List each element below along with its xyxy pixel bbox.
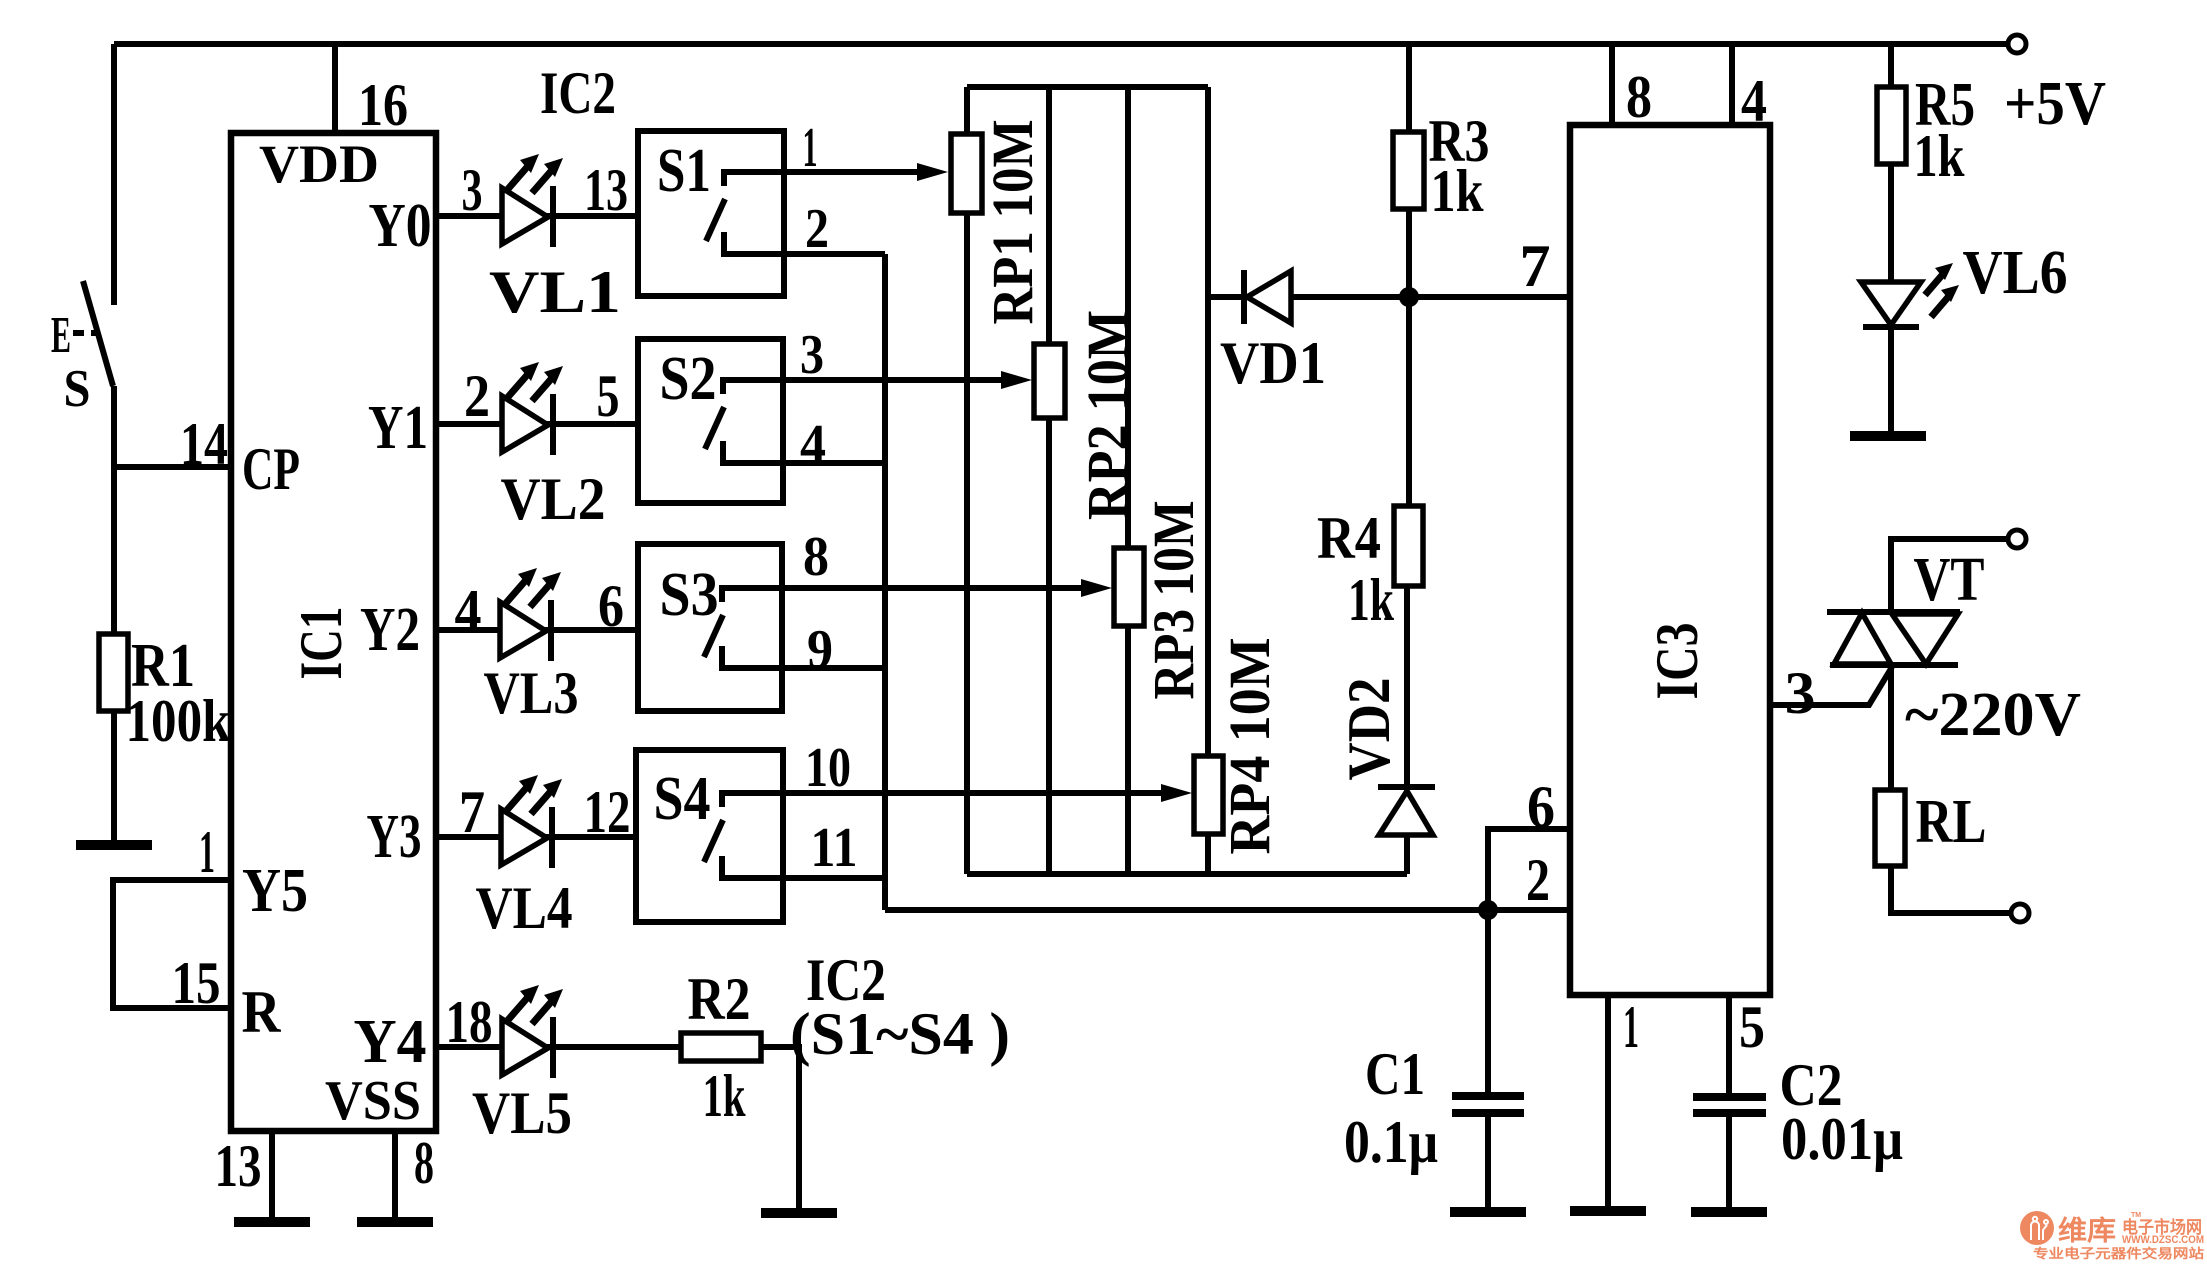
ground R2 <box>761 1212 837 1214</box>
svg-text:VL1: VL1 <box>489 259 621 325</box>
svg-text:10: 10 <box>805 737 851 799</box>
switch box S4 <box>636 750 783 922</box>
ground pin 8 <box>357 1221 433 1223</box>
triac VT <box>1827 609 1960 615</box>
wire S2 pin4 <box>783 460 885 466</box>
svg-text:4: 4 <box>1741 68 1767 134</box>
IC3 box <box>1570 125 1770 995</box>
wire S3 pin8 to RP3 wiper <box>782 585 1084 591</box>
ground VL6 <box>1850 435 1926 437</box>
svg-text:R4: R4 <box>1317 505 1381 571</box>
svg-text:RP1 10M: RP1 10M <box>980 120 1045 325</box>
switch S1 blade <box>706 199 725 241</box>
switch S2 moving contact <box>723 441 783 463</box>
wire Y3 <box>436 834 636 840</box>
svg-text:S4: S4 <box>654 765 711 833</box>
svg-text:E: E <box>51 307 71 364</box>
svg-text:Y5: Y5 <box>242 857 308 925</box>
svg-text:S1: S1 <box>657 137 711 205</box>
switch S3 fixed contact <box>722 588 782 602</box>
switch S3 moving contact <box>722 646 782 668</box>
RP2 wiper arrowhead <box>1001 371 1032 389</box>
wire RP1 top stub <box>964 87 970 136</box>
wire RP2 bottom <box>1046 418 1052 874</box>
switch S1 fixed contact <box>724 172 784 186</box>
wire RP4 bottom <box>1205 834 1211 874</box>
wire: Y5-R loop <box>113 880 231 1008</box>
wire: IC1 pin 8 stub <box>392 1131 398 1220</box>
svg-text:R: R <box>242 979 282 1045</box>
wire R3 bottom <box>1406 209 1412 297</box>
svg-text:5: 5 <box>1739 994 1765 1060</box>
svg-text:Y1: Y1 <box>368 394 428 462</box>
svg-text:VD1: VD1 <box>1220 330 1326 396</box>
terminal +5V <box>2008 35 2026 53</box>
LED VL6 pointing down <box>1861 282 1921 325</box>
wire S2 pin3 to RP2 wiper <box>783 377 1004 383</box>
ground below R1 <box>76 844 152 846</box>
resistor R1 <box>99 634 128 711</box>
svg-text:VL6: VL6 <box>1963 239 2068 307</box>
switch S actuator dashes <box>73 330 98 336</box>
wire R3 top <box>1406 44 1412 134</box>
svg-text:1k: 1k <box>703 1063 746 1129</box>
svg-text:18: 18 <box>446 989 493 1055</box>
svg-text:0.1μ: 0.1μ <box>1344 1109 1438 1175</box>
ground pin 13 <box>234 1221 310 1223</box>
wire R5 top <box>1888 44 1894 89</box>
svg-text:6: 6 <box>598 573 624 639</box>
wire to IC3 pin 7 <box>1409 294 1570 300</box>
svg-text:VD2: VD2 <box>1336 678 1402 781</box>
svg-text:S: S <box>64 360 91 418</box>
svg-text:15: 15 <box>172 950 221 1016</box>
LED VL5 <box>502 985 563 1078</box>
LED VL3 <box>500 568 561 661</box>
svg-text:2: 2 <box>1526 847 1550 913</box>
wire S4 pin10 to RP4 wiper <box>783 790 1164 796</box>
wire IC3 pin 3 to gate <box>1770 667 1892 705</box>
switch S blade <box>83 281 113 386</box>
svg-text:7: 7 <box>459 779 485 845</box>
diode VD1 <box>1241 270 1247 324</box>
svg-text:VL5: VL5 <box>472 1080 572 1146</box>
node junction pin2/pin6/C1 <box>1478 900 1498 920</box>
diode VD2 <box>1378 784 1435 790</box>
svg-text:~220V: ~220V <box>1905 681 2081 749</box>
svg-text:RP2 10M: RP2 10M <box>1075 310 1140 520</box>
switch S4 moving contact <box>722 856 783 878</box>
wire: run to IC3 pin 2 <box>885 907 1570 913</box>
wire IC3 pin 5 stub <box>1726 995 1732 1097</box>
svg-text:8: 8 <box>414 1130 434 1196</box>
svg-text:7: 7 <box>1520 233 1551 299</box>
capacitor C2 <box>1693 1093 1766 1101</box>
wire S1 pin2 <box>784 251 885 257</box>
wire R5 to VL6 <box>1888 164 1894 284</box>
svg-text:VT: VT <box>1914 546 1985 614</box>
switch S4 fixed contact <box>722 793 783 807</box>
svg-text:0.01μ: 0.01μ <box>1781 1106 1903 1172</box>
svg-text:IC2: IC2 <box>540 60 616 126</box>
svg-text:6: 6 <box>1527 774 1555 840</box>
svg-text:1: 1 <box>803 117 818 179</box>
wire IC3 pin 8 stub <box>1609 44 1615 125</box>
wire RP2 top <box>1046 87 1052 346</box>
svg-text:C1: C1 <box>1365 1041 1425 1107</box>
wire IC3 pin 1 stub <box>1605 995 1611 1209</box>
potentiometer RP4 <box>1194 756 1223 834</box>
svg-text:+5V: +5V <box>2004 70 2106 138</box>
svg-text:Y0: Y0 <box>369 192 432 260</box>
ground C1 <box>1450 1211 1526 1213</box>
node junction R3/VD1/R4/pin7 <box>1399 287 1419 307</box>
wire R4 top <box>1406 297 1412 508</box>
resistor R2 <box>681 1033 761 1061</box>
wire VL6 to ground <box>1888 327 1894 434</box>
wire S3 pin9 <box>782 665 885 671</box>
svg-text:8: 8 <box>803 526 829 588</box>
svg-text:(S1~S4 ): (S1~S4 ) <box>790 1001 1010 1067</box>
svg-text:CP: CP <box>242 436 300 502</box>
wire terminal to triac <box>1891 539 2008 610</box>
LED VL1 <box>502 154 563 247</box>
switch box S1 <box>638 131 784 296</box>
wire: collector vertical pins 2/4/9/11 <box>882 254 888 910</box>
svg-text:1: 1 <box>1623 994 1639 1060</box>
wire: R1 to ground <box>111 711 117 843</box>
svg-text:R2: R2 <box>688 966 751 1032</box>
wire S1 pin1 to RP1 wiper <box>784 169 920 175</box>
resistor RL <box>1875 790 1905 866</box>
svg-text:VL3: VL3 <box>484 660 579 726</box>
RP4 wiper arrowhead <box>1161 784 1192 802</box>
switch S2 fixed contact <box>723 380 783 394</box>
svg-text:专业电子元器件交易网站: 专业电子元器件交易网站 <box>2033 1246 2204 1261</box>
switch box S2 <box>638 339 783 503</box>
terminal bottom <box>2011 904 2029 922</box>
wire Y0 <box>436 213 638 219</box>
wire triac to RL <box>1888 665 1894 792</box>
svg-text:IC3: IC3 <box>1644 623 1710 700</box>
svg-text:RL: RL <box>1916 788 1987 856</box>
svg-text:1k: 1k <box>1348 567 1394 633</box>
resistor R3 <box>1393 132 1424 209</box>
wire RP3 top <box>1125 87 1131 550</box>
svg-text:1: 1 <box>199 819 215 885</box>
svg-text:Y3: Y3 <box>367 803 422 871</box>
svg-text:16: 16 <box>358 72 408 138</box>
switch S1 moving contact <box>724 232 784 254</box>
wire Y4 <box>436 1044 681 1050</box>
svg-text:12: 12 <box>584 779 631 845</box>
terminal triac top <box>2008 530 2026 548</box>
wire VD2 to rail <box>1404 835 1410 874</box>
svg-text:100k: 100k <box>126 688 232 754</box>
potentiometer RP1 <box>951 134 982 213</box>
LED VL4 <box>501 775 562 868</box>
svg-text:13: 13 <box>215 1133 262 1199</box>
wire RP3 bottom <box>1125 626 1131 874</box>
svg-text:1k: 1k <box>1914 123 1966 189</box>
wire: left vertical to switch <box>111 44 117 305</box>
wire VD1 row <box>1208 294 1409 300</box>
wire: IC1 pin 13 stub <box>269 1131 275 1220</box>
svg-text:Y4: Y4 <box>354 1008 427 1076</box>
wire RP1 bottom <box>964 213 970 874</box>
LED VL2 <box>502 362 563 455</box>
switch S3 blade <box>704 615 723 657</box>
wire RP4 top <box>1205 87 1211 758</box>
svg-text:8: 8 <box>1626 64 1652 130</box>
wire R4 to VD2 <box>1404 586 1410 789</box>
resistor R4 <box>1394 506 1423 586</box>
svg-text:VL4: VL4 <box>476 875 573 941</box>
resistor R5 <box>1877 87 1906 164</box>
svg-text:TM: TM <box>2131 1212 2141 1219</box>
ground IC3 pin 1 <box>1570 1210 1646 1212</box>
svg-text:3: 3 <box>1785 660 1816 726</box>
svg-text:3: 3 <box>800 324 824 386</box>
wire: RP top rail <box>967 84 1208 90</box>
IC1 box <box>231 133 436 1131</box>
wire RL to terminal <box>1891 866 2011 913</box>
svg-text:14: 14 <box>180 411 228 477</box>
wire: pin 16 stub <box>332 44 338 133</box>
wire Y2 <box>436 627 638 633</box>
svg-text:IC1: IC1 <box>288 607 354 680</box>
RP3 wiper arrowhead <box>1081 579 1112 597</box>
wire IC3 pin 6 <box>1488 829 1570 910</box>
wire IC3 pin 4 stub <box>1729 44 1735 125</box>
svg-text:WWW.DZSC.COM: WWW.DZSC.COM <box>2122 1234 2204 1246</box>
wire: RP bottom rail to VD2 <box>967 871 1407 877</box>
RP1 wiper arrowhead <box>917 163 948 181</box>
svg-text:3: 3 <box>462 157 483 223</box>
wire Y1 <box>436 421 638 427</box>
svg-text:S3: S3 <box>660 561 719 629</box>
svg-text:4: 4 <box>800 414 826 476</box>
svg-text:2: 2 <box>464 363 490 429</box>
wire: CP pin 14 <box>114 464 231 470</box>
svg-text:S2: S2 <box>660 345 717 413</box>
svg-text:Y2: Y2 <box>360 596 420 664</box>
svg-text:VDD: VDD <box>259 134 379 194</box>
svg-text:2: 2 <box>805 198 829 260</box>
capacitor C1 <box>1485 910 1491 1096</box>
svg-text:RP3 10M: RP3 10M <box>1141 501 1206 700</box>
potentiometer RP3 <box>1114 548 1144 626</box>
svg-text:1k: 1k <box>1431 158 1485 224</box>
svg-text:VL2: VL2 <box>501 466 606 532</box>
watermark <box>2020 1211 2204 1261</box>
switch box S3 <box>638 544 782 711</box>
svg-text:VSS: VSS <box>325 1070 421 1132</box>
svg-text:维库: 维库 <box>2058 1216 2116 1246</box>
ground C2 <box>1691 1211 1767 1213</box>
potentiometer RP2 <box>1034 344 1065 418</box>
wire: R2 to ground <box>761 1047 799 1211</box>
switch S2 blade <box>705 407 724 449</box>
wire: switch to R1 <box>111 386 117 636</box>
switch S4 blade <box>704 820 723 862</box>
svg-text:11: 11 <box>811 817 858 879</box>
svg-text:9: 9 <box>807 619 833 681</box>
svg-text:13: 13 <box>584 157 628 223</box>
svg-text:4: 4 <box>455 578 482 644</box>
wire S4 pin11 <box>783 875 885 881</box>
svg-text:5: 5 <box>597 363 620 429</box>
svg-text:RP4 10M: RP4 10M <box>1217 638 1282 855</box>
wire: +5V top rail <box>114 41 2017 47</box>
